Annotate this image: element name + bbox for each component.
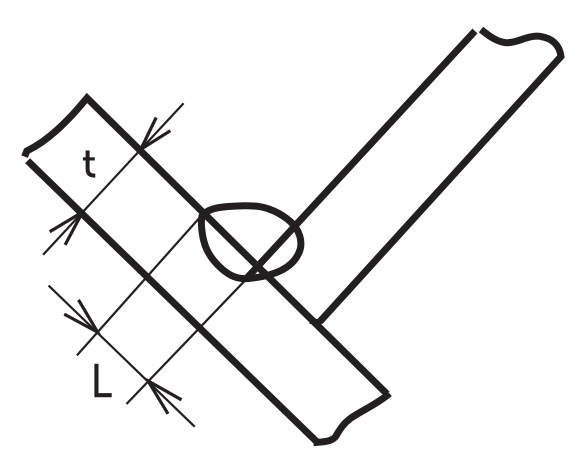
plate A bottom edge bbox=[28, 161, 317, 442]
weld nugget bbox=[201, 206, 301, 279]
dimension line t across plate A bbox=[43, 103, 184, 255]
arrowhead t upper (points at plate A top face) bbox=[141, 118, 171, 150]
arrowhead t lower (points at plate A bottom face) bbox=[50, 212, 83, 245]
plate B right edge with top break line bbox=[320, 30, 561, 322]
plate A right break line bbox=[314, 394, 390, 443]
label L (weld length) bbox=[96, 364, 111, 395]
plate B left edge bbox=[246, 31, 475, 279]
dimension line L bbox=[49, 286, 195, 427]
label t (plate thickness) bbox=[83, 151, 95, 176]
plate A top edge with left break line bbox=[25, 98, 387, 394]
arrowhead L upper bbox=[64, 300, 97, 332]
plate B end face on plate A bbox=[310, 319, 323, 324]
extension line from weld nugget right bbox=[127, 267, 259, 404]
extension line from weld nugget left bbox=[77, 215, 202, 355]
arrowhead L lower bbox=[148, 381, 182, 414]
